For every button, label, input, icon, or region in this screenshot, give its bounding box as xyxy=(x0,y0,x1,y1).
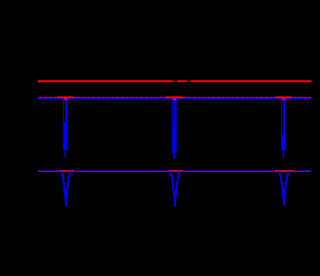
upper spike 1 blue body xyxy=(63,100,67,150)
lower spike 1 left branch xyxy=(62,171,66,206)
upper spike 1 blue funnel xyxy=(60,98,71,101)
purple fringe on upper baseline xyxy=(38,96,311,98)
red trace gap 2 xyxy=(187,80,192,83)
upper spike 1 red cap band xyxy=(57,96,74,98)
lower red segment 1 xyxy=(60,170,74,172)
red trace: flat line xyxy=(38,80,311,82)
upper spike 1 red center dip xyxy=(64,98,68,100)
upper spike 2 red cap band xyxy=(166,96,183,98)
upper spike 3 red cap band xyxy=(275,96,292,98)
lower spike 2 right branch xyxy=(175,171,179,207)
red trace gap 1 xyxy=(173,80,178,83)
upper spike 3 red center dip xyxy=(282,98,286,100)
lower spike 3 left branch xyxy=(280,171,284,205)
upper spike 2 red center dip xyxy=(173,98,177,100)
upper spike 3 blue body xyxy=(281,100,285,150)
upper spike 3 blue funnel xyxy=(278,98,289,101)
red speckles on upper baseline xyxy=(40,96,311,98)
lower red segment 2 xyxy=(169,170,183,172)
upper spike 1 notch xyxy=(64,101,65,122)
upper spike 3 notch xyxy=(282,101,283,135)
upper spike 2 blue funnel xyxy=(169,98,180,101)
blue trace upper baseline xyxy=(38,97,311,99)
upper spike 2 notch xyxy=(173,101,174,127)
lower spike 3 right branch xyxy=(284,171,288,205)
lower purple baseline xyxy=(38,170,311,172)
upper spike 2 blue body xyxy=(172,100,176,153)
lower red segment 3 xyxy=(275,170,293,172)
lower spike 2 left branch xyxy=(171,171,175,207)
lower spike 1 right branch xyxy=(66,171,70,206)
